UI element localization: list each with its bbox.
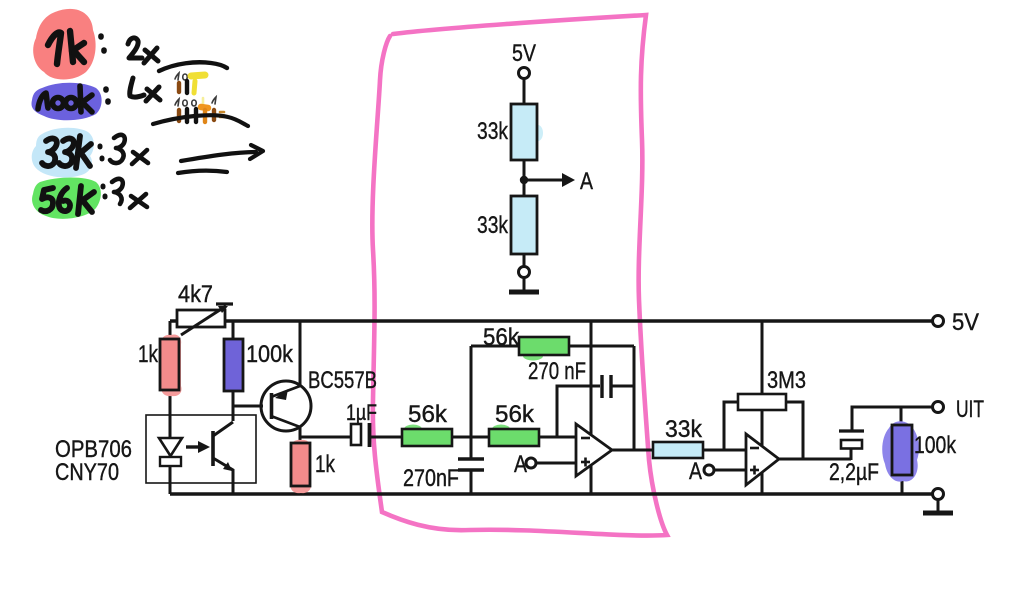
resistor 100k body [224, 339, 243, 391]
svg-text:100k: 100k [914, 432, 957, 459]
svg-text:5V: 5V [952, 309, 979, 336]
ground symbol (divider) [523, 278, 526, 291]
legend handwritten 33k [42, 136, 91, 168]
resistor 1k emitter body [291, 443, 310, 486]
resistor 3M3 body [738, 394, 786, 410]
svg-text:4k7: 4k7 [178, 281, 213, 308]
wire opamp2 output to cap [779, 458, 851, 461]
svg-text:1k: 1k [138, 341, 159, 368]
op-amp U1 [576, 424, 612, 476]
terminal ground right [933, 489, 944, 500]
legend sketch bottom wavy line [153, 115, 248, 126]
wire 33k to opamp2 [703, 449, 746, 452]
LED of optocoupler [159, 438, 182, 456]
svg-text:270nF: 270nF [403, 465, 459, 492]
svg-text:33k: 33k [477, 118, 509, 145]
light arrow [186, 445, 202, 448]
svg-text:5V: 5V [512, 40, 536, 67]
wire 56k to opamp1 inverting input [539, 436, 576, 439]
legend handwritten 1k [48, 31, 84, 64]
wire opamp1 output [612, 449, 653, 452]
wire R upper to node A [523, 160, 526, 196]
wire 100k branch down [232, 321, 235, 421]
wire junction x471 vertical (fb + cap) [470, 346, 473, 459]
ground symbol right [937, 500, 940, 512]
wire cap to UIT node [852, 407, 933, 431]
terminal UIT [933, 402, 944, 413]
legend sketch yellow band [191, 75, 205, 76]
wire phototransistor collector diag [213, 422, 233, 436]
legend sketch digits row2 [175, 97, 216, 106]
legend short underline [178, 171, 227, 173]
wire 56k to 56k [452, 436, 489, 439]
phototransistor of optocoupler [211, 431, 215, 466]
legend light-blue blob 33k [32, 128, 94, 178]
wire 5V to R upper [523, 79, 526, 104]
svg-text:A: A [580, 168, 593, 195]
svg-text:33k: 33k [477, 212, 509, 239]
optocoupler box [146, 415, 256, 483]
svg-text:2,2µF: 2,2µF [829, 459, 879, 486]
wire BC557B collector down [299, 426, 302, 494]
resistor 33k lower (divider) [511, 196, 537, 254]
legend handwritten 100k [38, 86, 92, 112]
wire feedback right vertical [633, 346, 636, 450]
wire 1uF to 56k [370, 436, 402, 439]
svg-text:A: A [689, 458, 702, 485]
wire A1 to opamp1 + input [536, 462, 576, 465]
op-amp U2 [746, 434, 779, 485]
wire opamp2 power vertical [761, 321, 764, 494]
terminal A1 [526, 458, 536, 468]
terminal ground (divider) [519, 267, 530, 278]
capacitor 270nF feedback [600, 375, 603, 398]
transistor BC557B [261, 381, 311, 431]
terminal 5V (divider) [519, 68, 530, 79]
resistor 1k emitter halo [291, 440, 311, 493]
wire feedback 56k left [471, 345, 519, 348]
wire 3M3 feedback left vertical [724, 402, 738, 450]
wire feedback 56k right [569, 345, 634, 348]
svg-text:CNY70: CNY70 [55, 459, 119, 486]
svg-text:56k: 56k [495, 401, 535, 428]
wire BC557B emitter to rail [299, 321, 302, 387]
legend handwritten 56k [41, 186, 94, 214]
wire collector to 1uF [300, 436, 351, 439]
trimmer 4k7 body [177, 310, 225, 327]
resistor 56k feedback body [523, 352, 543, 361]
wire feedback cap left [557, 386, 600, 437]
wire 5V top rail [170, 319, 938, 322]
legend long arrow [181, 152, 256, 161]
svg-text:56k: 56k [408, 401, 448, 428]
resistor 100k output halo [882, 421, 919, 481]
legend colon 4 [103, 186, 105, 197]
svg-text:A: A [514, 451, 527, 478]
resistor 56k series body [492, 425, 510, 434]
resistor 1k left halo [161, 335, 182, 397]
svg-text:UIT: UIT [956, 396, 984, 423]
capacitor 270nF shunt [458, 457, 484, 460]
wire bottom ground rail [170, 492, 938, 495]
resistor 33k output body [653, 442, 703, 458]
legend sketch digits row1 [175, 73, 187, 80]
svg-text:270 nF: 270 nF [528, 358, 586, 385]
legend sketch top wavy line [159, 62, 227, 71]
legend red blob 1k [33, 9, 95, 80]
legend colon 3 [100, 146, 102, 159]
legend count 2x [128, 38, 158, 63]
pink highlight box [372, 15, 667, 536]
legend count 3x (56k) [112, 179, 147, 208]
legend colon 1 [101, 36, 104, 51]
wire feedback cap right [612, 385, 634, 388]
capacitor 1uF [351, 424, 361, 445]
legend sketch orange band [201, 107, 208, 108]
wire 2u2 cap bottom stem [850, 448, 853, 460]
capacitor 2.2uF [839, 429, 864, 432]
svg-text:56k: 56k [483, 324, 520, 351]
resistor 100k output body [892, 425, 912, 475]
legend colon 2 [106, 89, 108, 102]
node A arrow [524, 179, 568, 182]
legend count 4x [130, 78, 160, 101]
terminal 5V right [933, 316, 944, 327]
resistor 1k left body [160, 339, 179, 390]
svg-text:3M3: 3M3 [767, 367, 806, 394]
wire R lower to terminal [523, 254, 526, 267]
svg-text:100k: 100k [246, 341, 294, 368]
resistor 33k upper (divider) [533, 125, 543, 141]
wire 3M3 feedback right [786, 402, 803, 459]
legend green blob 56k [32, 178, 101, 219]
svg-text:1µF: 1µF [346, 400, 377, 425]
wire 270nF cap to ground rail [470, 470, 473, 494]
svg-text:BC557B: BC557B [308, 367, 377, 394]
node A junction dot [520, 176, 528, 184]
terminal A2 [704, 465, 714, 475]
legend sketch row1 bars [177, 83, 181, 92]
svg-text:1k: 1k [315, 451, 336, 478]
wire A2 to opamp2 + input [714, 469, 746, 472]
resistor 56k input body [404, 425, 422, 434]
legend blue blob 100k [32, 83, 102, 121]
legend sketch row2 bars [177, 110, 181, 121]
wire left branch (1k + LED chain) [169, 321, 172, 494]
svg-text:33k: 33k [665, 416, 703, 443]
wire opamp1 power vertical [590, 321, 593, 494]
wire 100k output branch [900, 407, 903, 425]
legend count 3x (33k) [110, 135, 148, 164]
wire phototransistor emitter diag [213, 458, 233, 494]
wire base of BC557B [233, 405, 263, 408]
trimmer 4k7 arrow [181, 306, 226, 335]
